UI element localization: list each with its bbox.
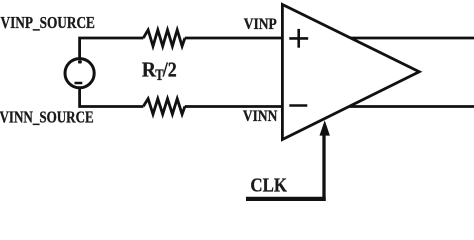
svg-text:CLK: CLK xyxy=(250,175,287,197)
svg-text:VINN_SOURCE: VINN_SOURCE xyxy=(0,107,94,126)
svg-text:/2: /2 xyxy=(162,57,177,81)
svg-text:VINP_SOURCE: VINP_SOURCE xyxy=(1,13,95,32)
svg-text:VINP: VINP xyxy=(244,16,277,33)
svg-text:VINN: VINN xyxy=(243,108,278,125)
